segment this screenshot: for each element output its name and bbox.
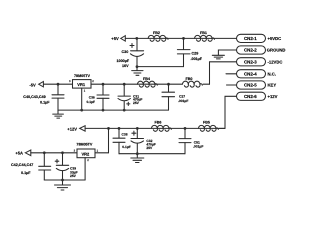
svg-text:.001µF: .001µF <box>191 57 203 61</box>
svg-text:C27: C27 <box>179 94 185 98</box>
svg-text:CN2-6: CN2-6 <box>244 94 257 99</box>
svg-text:GROUND: GROUND <box>267 48 286 53</box>
capacitor C36 <box>97 84 109 110</box>
svg-text:.001µF: .001µF <box>178 99 188 103</box>
svg-text:-12VDC: -12VDC <box>268 60 283 65</box>
svg-text:FB0: FB0 <box>186 77 193 81</box>
node -5V arrow <box>39 82 44 87</box>
node junction VR1 gnd <box>80 109 83 112</box>
capacitor C39 <box>55 153 68 180</box>
svg-text:79M05TV: 79M05TV <box>74 74 91 78</box>
inductor FB1 <box>195 35 215 41</box>
svg-text:-5V: -5V <box>29 83 36 88</box>
regulator VR2 <box>77 149 109 180</box>
capacitor C29 <box>177 38 190 66</box>
node junction C32 gnd <box>136 152 139 155</box>
node junction C51 <box>184 127 187 130</box>
value label C38 <box>122 133 131 149</box>
wire row4 bottom rail <box>44 179 85 181</box>
svg-text:+5A: +5A <box>15 150 23 155</box>
svg-text:1000µF: 1000µF <box>117 59 130 63</box>
wire VR2 feed drop <box>108 128 110 152</box>
svg-text:.001µF: .001µF <box>193 145 203 149</box>
wire row1 bottom rail <box>137 66 184 68</box>
wire row3 main <box>85 127 225 129</box>
svg-text:FB2: FB2 <box>153 31 160 35</box>
value label C39 <box>70 167 78 179</box>
node junction VR2 feed <box>107 127 110 130</box>
node junction C39 <box>61 151 64 154</box>
node junction C31 <box>123 83 126 86</box>
node junction rail gnd <box>136 65 139 68</box>
ground row4 <box>55 180 71 190</box>
node +5A arrow <box>25 150 31 156</box>
svg-text:78M05TV: 78M05TV <box>76 142 93 146</box>
value label C32 <box>146 139 155 150</box>
value label C30 <box>117 50 130 68</box>
svg-text:16V: 16V <box>122 64 129 68</box>
svg-text:FB4: FB4 <box>143 77 151 81</box>
svg-text:25V: 25V <box>70 174 77 178</box>
svg-text:FB6: FB6 <box>155 120 162 124</box>
node junction C32 <box>136 127 139 130</box>
node +12V arrow <box>80 126 85 131</box>
svg-text:CN2-2: CN2-2 <box>244 48 257 53</box>
svg-text:C36: C36 <box>89 95 95 99</box>
node junction C27 <box>167 83 170 86</box>
node junction C40 <box>57 83 60 86</box>
connector pin CN2-4 <box>237 70 266 78</box>
svg-text:CN2-3: CN2-3 <box>244 60 257 65</box>
svg-text:FB5: FB5 <box>203 120 210 124</box>
svg-text:VR2: VR2 <box>82 151 91 156</box>
ground row3 <box>131 154 144 163</box>
svg-text:CN2-5: CN2-5 <box>244 83 257 88</box>
svg-text:+5V: +5V <box>111 36 119 41</box>
svg-text:0.1µF: 0.1µF <box>40 100 50 104</box>
wire pill3 stub to row2 <box>210 62 237 84</box>
wire row3 to pill6 corner <box>219 127 225 129</box>
wire row1 main <box>125 37 236 39</box>
capacitor C40,C43,C49 <box>52 84 64 110</box>
node junction C30 <box>135 37 138 40</box>
svg-text:+12V: +12V <box>268 94 278 99</box>
node junction C39 gnd <box>61 179 64 182</box>
capacitor C30 <box>130 38 144 66</box>
connector pin CN2-5 <box>237 81 266 89</box>
regulator VR1 <box>73 80 92 111</box>
svg-text:25V: 25V <box>146 146 153 150</box>
svg-text:CN2-1: CN2-1 <box>244 36 257 41</box>
svg-text:FB1: FB1 <box>200 31 207 35</box>
svg-text:+5VDC: +5VDC <box>268 36 282 41</box>
node junction C38 <box>118 127 121 130</box>
value label C27 <box>178 94 188 103</box>
inductor FB6 <box>152 125 172 131</box>
svg-text:C40,C43,C49: C40,C43,C49 <box>23 95 45 99</box>
svg-text:C38: C38 <box>122 133 128 137</box>
connector pin CN2-3 <box>237 58 266 66</box>
value label C31 <box>133 94 142 105</box>
wire row2 to pill3 corner <box>203 83 209 85</box>
wire pill2 stub <box>218 50 236 55</box>
value label C29 <box>191 51 203 60</box>
inductor FB2 <box>148 35 168 41</box>
value label C36 <box>87 95 96 103</box>
value label C42,C44,C47 <box>11 163 33 175</box>
inductor FB4 <box>138 81 158 87</box>
inductor FB5 <box>199 125 219 131</box>
value label C51 <box>193 140 203 148</box>
svg-text:CN2-4: CN2-4 <box>244 72 257 77</box>
svg-text:VR1: VR1 <box>77 82 86 87</box>
capacitor C51 <box>179 128 191 153</box>
wire row3 bottom rail <box>119 153 185 155</box>
svg-text:C29: C29 <box>192 51 199 55</box>
svg-text:0.1µF: 0.1µF <box>87 100 96 104</box>
connector pin CN2-1 <box>237 34 266 42</box>
node junction C31 gnd <box>123 109 126 112</box>
node junction C29 <box>182 37 185 40</box>
svg-text:0.1µF: 0.1µF <box>122 145 131 149</box>
node junction C36 <box>102 83 105 86</box>
inductor FB0 <box>183 81 203 87</box>
svg-text:+12V: +12V <box>67 126 77 131</box>
svg-text:C30: C30 <box>122 50 129 54</box>
connector pin CN2-6 <box>237 92 266 100</box>
capacitor C32 <box>131 128 144 153</box>
node +5V arrow <box>121 36 126 41</box>
ground row1 <box>132 67 143 76</box>
svg-text:25V: 25V <box>133 101 140 105</box>
capacitor C27 <box>162 84 175 110</box>
ground row2 <box>53 110 64 118</box>
wire pill5 stub <box>227 84 237 86</box>
node junction C36 gnd <box>102 109 105 112</box>
wire row2 bottom rail <box>58 109 169 111</box>
ground pill2 <box>212 55 224 59</box>
wire pill4 stub <box>226 73 237 75</box>
wire row2 left <box>43 83 72 85</box>
connector pin CN2-2 <box>237 46 266 54</box>
capacitor C42,C44,C47 <box>39 153 51 180</box>
node junction C42 <box>43 151 46 154</box>
capacitor C31 <box>118 84 130 110</box>
svg-text:C42,C44,C47: C42,C44,C47 <box>11 163 33 167</box>
svg-text:KEY: KEY <box>268 83 277 88</box>
wire pill6 stub to row3 <box>225 96 237 128</box>
wire row2 mid <box>91 83 182 85</box>
svg-text:N.C.: N.C. <box>268 72 276 77</box>
capacitor C38 <box>113 128 125 153</box>
svg-text:0.1µF: 0.1µF <box>21 171 31 175</box>
value label C40,C43,C49 <box>23 95 50 104</box>
wire row4 main <box>31 152 77 154</box>
